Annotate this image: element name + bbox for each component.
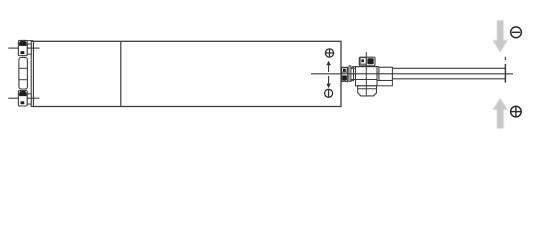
screw centerline bottom xyxy=(8,97,39,99)
main centerline xyxy=(311,73,513,75)
clamp screw centerline xyxy=(365,52,367,95)
piston rod top edge xyxy=(392,67,505,69)
end plate xyxy=(31,41,33,106)
grey up arrow xyxy=(493,98,508,129)
rod collar xyxy=(379,67,393,80)
extend plus symbol xyxy=(511,106,522,117)
retract minus symbol xyxy=(511,27,522,38)
actuator body xyxy=(33,41,341,106)
piston rod bottom edge xyxy=(392,78,505,80)
collar lower box xyxy=(377,81,392,86)
rod end cap xyxy=(504,64,506,83)
motor screw top xyxy=(18,40,33,55)
up arrow small xyxy=(326,61,330,72)
grey down arrow xyxy=(493,20,508,52)
clamp body xyxy=(351,67,379,86)
rod end centerline tick xyxy=(504,57,506,60)
motor housing xyxy=(19,58,28,90)
clamp foot xyxy=(358,86,377,96)
screw boss bottom xyxy=(27,94,31,104)
screw boss top xyxy=(27,44,31,54)
clamp step xyxy=(351,68,354,81)
screw centerline top xyxy=(8,47,39,49)
rod edge stub left xyxy=(351,67,356,69)
rod connector block xyxy=(342,67,348,81)
down arrow small xyxy=(326,76,330,88)
clamp arm xyxy=(349,66,351,82)
motor screw bottom xyxy=(18,91,27,107)
clamp screw block xyxy=(359,57,375,66)
body section divider xyxy=(120,41,122,106)
adjuster plus symbol xyxy=(325,49,333,57)
adjuster zero symbol xyxy=(325,89,333,97)
